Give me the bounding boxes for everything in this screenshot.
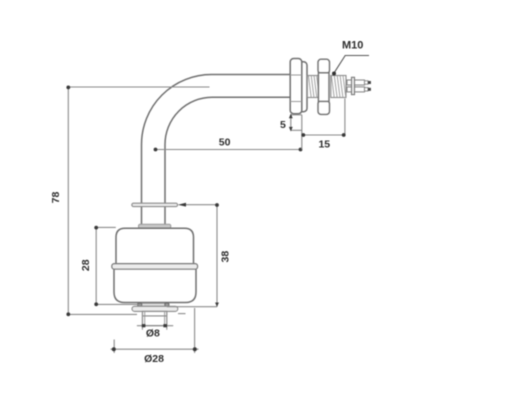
svg-text:15: 15 [318,138,330,150]
wire terminal top [347,80,365,85]
float middle band [112,264,198,270]
svg-text:78: 78 [50,192,62,204]
svg-text:Ø8: Ø8 [146,328,160,340]
dimension diameter 28 [113,340,115,354]
retaining clip (washer) on tube [132,203,178,206]
hex nut [318,59,330,114]
extension line flange face [301,115,303,150]
svg-text:38: 38 [219,251,231,263]
terminal tip top [365,81,369,84]
dimension 5 [291,115,302,131]
collar on float top [139,224,171,228]
wire terminal bottom [347,87,365,92]
terminal band [352,77,355,94]
bottom stem [142,311,166,325]
tube (bent stem pipe) [142,75,291,225]
dimension diameter 8 [137,325,173,327]
dimension 28 (float height) [96,227,140,304]
dimension 78 [68,87,209,314]
lower washer [132,306,178,311]
svg-text:28: 28 [80,259,92,271]
svg-text:5: 5 [280,119,286,131]
svg-text:50: 50 [219,136,231,148]
tube segment below clip [141,207,143,225]
stem side extension lines [142,326,166,330]
hole lines through flange [290,75,302,102]
flange back plate [294,62,307,112]
thread section 2 (M10) [331,76,346,98]
step under float [138,303,169,306]
dimension 38 [167,205,217,307]
float lower body [114,267,196,303]
float upper body [116,228,194,266]
dimension 15 [344,99,346,136]
flange front plate [290,59,302,114]
terminal tip bottom [365,88,369,91]
svg-text:Ø28: Ø28 [144,353,164,365]
thread section 1 [307,76,318,98]
svg-text:M10: M10 [342,40,363,52]
dimension 50 [156,149,301,151]
